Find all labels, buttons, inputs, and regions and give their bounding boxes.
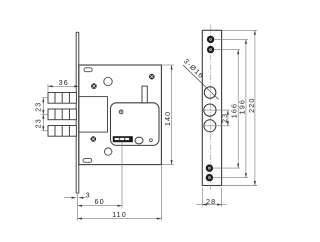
deadbolt row 3 bbox=[48, 126, 76, 137]
oval knob hole bbox=[135, 137, 143, 144]
upper open circle in body bbox=[104, 77, 112, 85]
dimension 110 bbox=[78, 166, 162, 221]
dimension 166 bbox=[213, 50, 240, 169]
leader 3-O16 label bbox=[183, 65, 219, 99]
screw boss top-right bbox=[149, 74, 155, 80]
screw hole top 1 bbox=[207, 36, 214, 43]
dimension 28 below plate bbox=[196, 188, 226, 207]
svg-text:60: 60 bbox=[94, 197, 104, 206]
screw boss below bolt box bbox=[91, 136, 97, 142]
dimension 140 right of body bbox=[162, 65, 174, 165]
big hole B bbox=[204, 104, 216, 116]
big hole C bbox=[204, 120, 216, 132]
vertical dashed centerline bbox=[210, 25, 212, 192]
dimension 3 (faceplate thickness) bbox=[64, 197, 86, 199]
svg-text:3: 3 bbox=[86, 191, 91, 200]
escutcheon screw bbox=[119, 110, 123, 114]
dimension 196 bbox=[213, 39, 248, 177]
svg-text:220: 220 bbox=[247, 98, 256, 113]
lower open circle in body bbox=[105, 148, 112, 155]
svg-text:23: 23 bbox=[34, 118, 43, 128]
faceplate edge view (left view front plate) bbox=[76, 32, 79, 193]
vertical tab above escutcheon bbox=[142, 86, 147, 103]
big hole A bbox=[204, 87, 216, 99]
svg-text:36: 36 bbox=[59, 78, 69, 87]
tiny pin hole bbox=[150, 139, 153, 142]
deadbolt row 2 bbox=[48, 109, 76, 120]
bottom slot in body bbox=[83, 159, 92, 163]
cylinder escutcheon rounded plate bbox=[111, 103, 160, 146]
dimension 23 (upper) and 23 (lower) left chain bbox=[42, 98, 48, 131]
svg-text:23: 23 bbox=[34, 102, 43, 112]
svg-text:196: 196 bbox=[238, 99, 247, 114]
lock body outline bbox=[79, 65, 162, 165]
svg-text:140: 140 bbox=[163, 111, 172, 126]
svg-text:110: 110 bbox=[112, 210, 127, 219]
screw hole bottom D bbox=[206, 164, 213, 171]
bolt housing inner box bbox=[79, 97, 108, 133]
leader line from key slot down bbox=[121, 142, 123, 208]
svg-text:23: 23 bbox=[220, 113, 229, 123]
dimension 60 bbox=[78, 194, 123, 221]
dimension 220 bbox=[222, 30, 257, 185]
strike plate front view (right view) bbox=[202, 30, 221, 185]
screw boss upper-left bbox=[91, 83, 97, 89]
screw hole top 2 bbox=[207, 46, 214, 53]
deadbolt row 1 bbox=[48, 93, 76, 104]
hatched key slot bbox=[113, 136, 133, 142]
svg-text:28: 28 bbox=[206, 197, 216, 206]
top slot in body bbox=[84, 68, 92, 72]
screw hole bottom E bbox=[206, 174, 213, 181]
dimension 36 bbox=[48, 84, 79, 92]
dimension 23 between holes B and C bbox=[204, 110, 230, 126]
